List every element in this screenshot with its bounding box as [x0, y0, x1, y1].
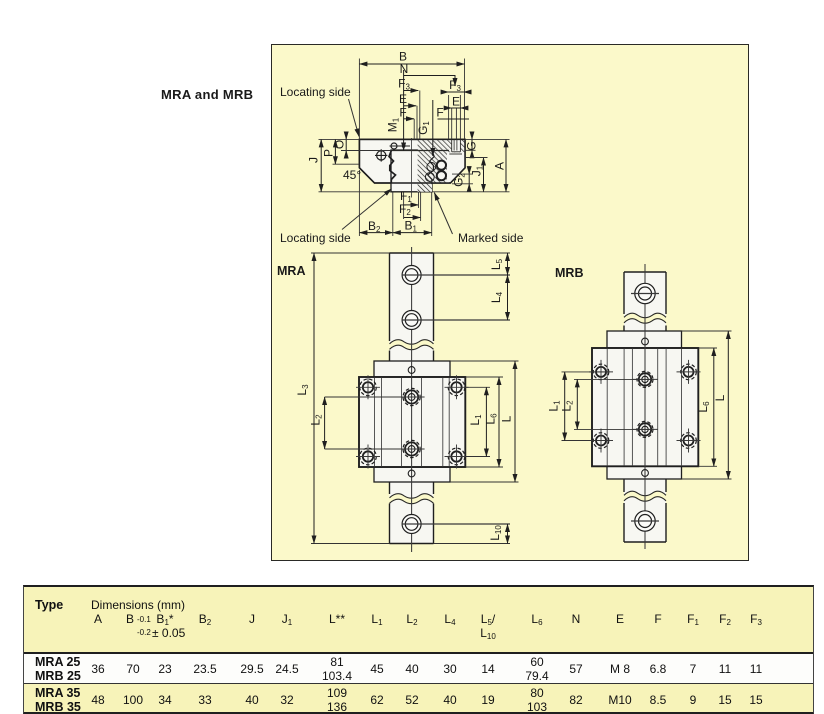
- svg-text:45°: 45°: [343, 168, 361, 182]
- svg-text:F2: F2: [399, 202, 411, 217]
- svg-text:L6: L6: [484, 413, 499, 425]
- svg-text:N: N: [400, 62, 409, 76]
- svg-text:Locating side: Locating side: [280, 85, 351, 99]
- svg-text:G: G: [465, 141, 479, 150]
- svg-text:L2: L2: [560, 400, 575, 412]
- svg-text:MRA: MRA: [277, 264, 305, 278]
- svg-text:L3: L3: [295, 384, 310, 396]
- svg-text:L10: L10: [488, 525, 503, 541]
- svg-text:E: E: [452, 95, 460, 109]
- svg-text:G1: G1: [416, 121, 431, 135]
- svg-text:L1: L1: [468, 414, 483, 426]
- svg-text:L: L: [500, 415, 514, 422]
- svg-text:P: P: [322, 149, 336, 157]
- svg-text:MRB: MRB: [555, 266, 583, 280]
- svg-text:F: F: [436, 106, 443, 120]
- svg-text:L4: L4: [489, 291, 504, 303]
- svg-text:L2: L2: [309, 414, 324, 426]
- svg-text:E: E: [399, 92, 407, 106]
- svg-text:J1: J1: [470, 165, 485, 176]
- svg-text:Marked side: Marked side: [458, 231, 524, 245]
- svg-text:Locating side: Locating side: [280, 231, 351, 245]
- svg-text:F3: F3: [398, 77, 410, 92]
- svg-text:L5: L5: [489, 258, 504, 270]
- svg-text:L: L: [713, 394, 727, 401]
- svg-text:A: A: [493, 162, 507, 170]
- svg-text:F: F: [399, 106, 406, 120]
- svg-text:O: O: [333, 140, 347, 149]
- svg-text:B1: B1: [405, 219, 418, 234]
- svg-text:J: J: [307, 157, 321, 163]
- svg-text:F3: F3: [449, 78, 461, 93]
- svg-text:M1: M1: [386, 117, 401, 132]
- svg-text:B2: B2: [368, 219, 381, 234]
